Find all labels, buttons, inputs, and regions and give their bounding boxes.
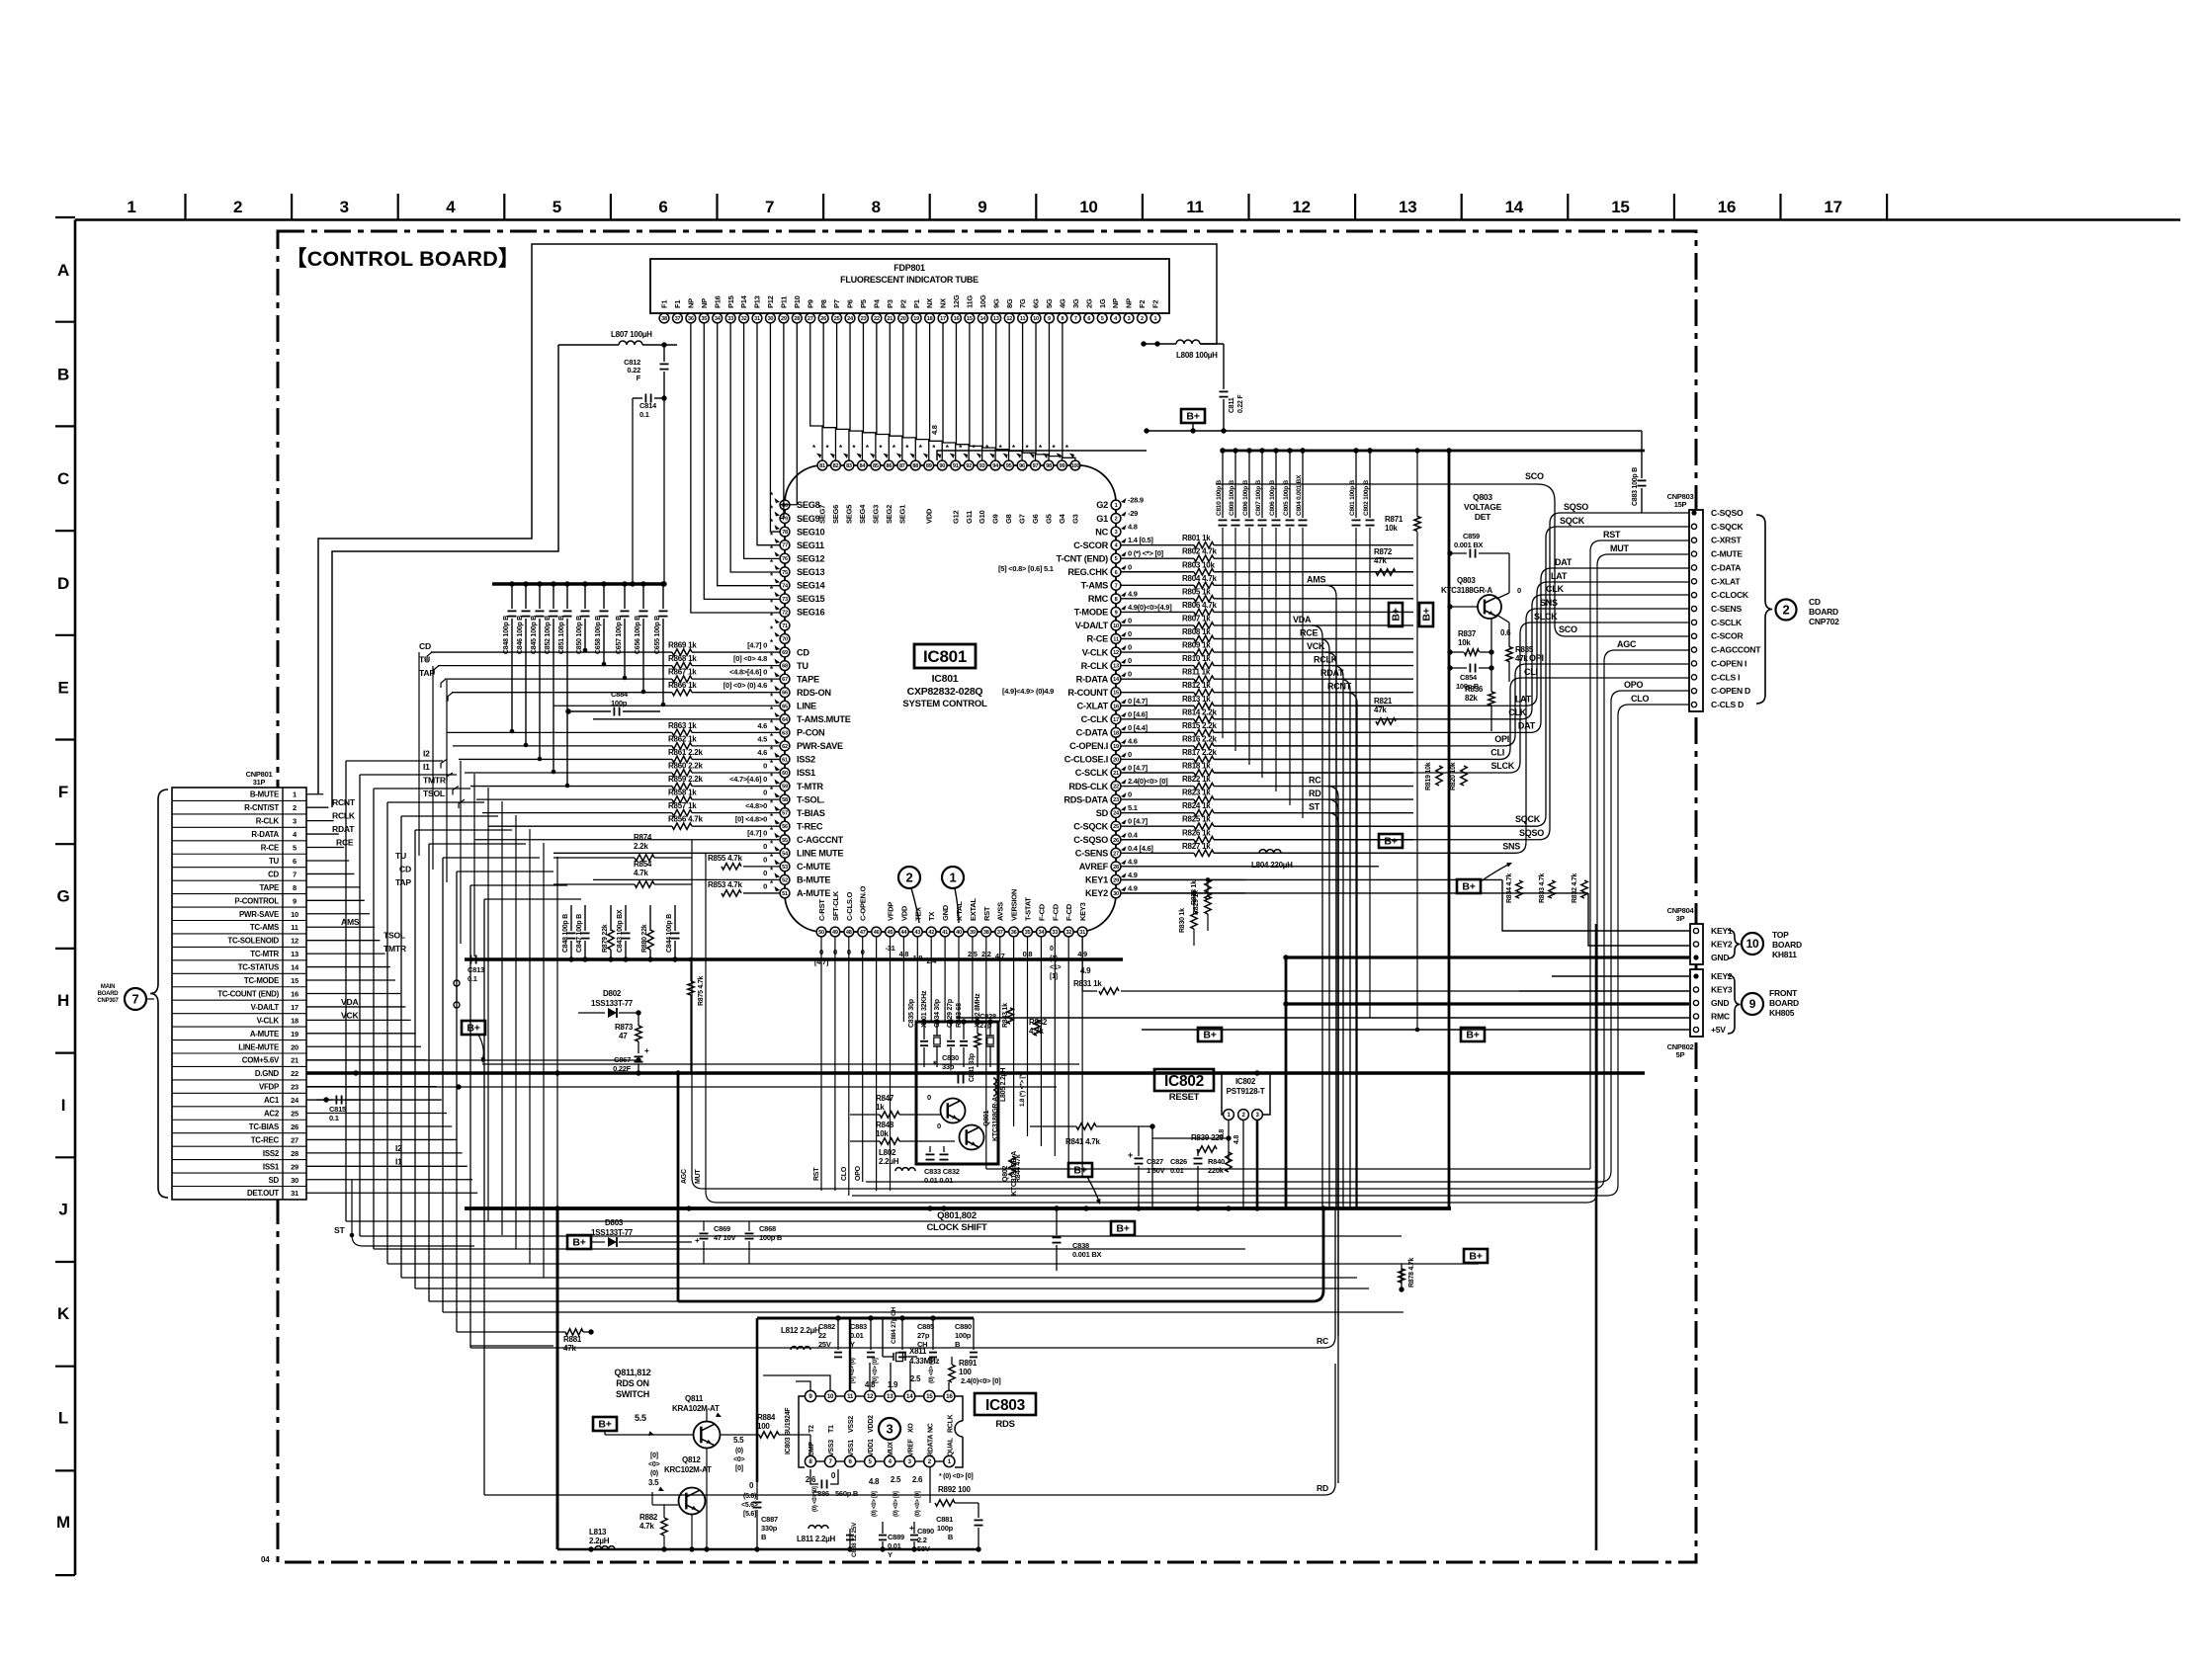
pin value 55 bbox=[747, 828, 780, 838]
svg-text:C883: C883 bbox=[850, 1322, 867, 1331]
svg-text:Q803: Q803 bbox=[1457, 576, 1476, 585]
resistor R821 bbox=[1374, 697, 1396, 724]
svg-text:6: 6 bbox=[658, 198, 667, 216]
svg-text:15P: 15P bbox=[1674, 500, 1687, 509]
resistor R828 bbox=[1191, 879, 1211, 905]
svg-text:G8: G8 bbox=[1004, 514, 1013, 524]
svg-text:C-DATA: C-DATA bbox=[1076, 728, 1109, 738]
svg-text:R841 4.7k: R841 4.7k bbox=[1065, 1137, 1100, 1146]
power B+ rds bbox=[593, 1413, 693, 1436]
svg-text:82: 82 bbox=[833, 463, 839, 469]
svg-text:8: 8 bbox=[1115, 597, 1118, 603]
wire thick bottom bus bbox=[465, 1205, 1451, 1210]
svg-text:48: 48 bbox=[846, 930, 852, 936]
capacitor C869 bbox=[695, 1221, 736, 1264]
svg-text:2: 2 bbox=[1783, 603, 1790, 618]
resistor R884 bbox=[757, 1413, 779, 1438]
svg-text:6: 6 bbox=[1115, 570, 1118, 576]
svg-text:RESET: RESET bbox=[1169, 1092, 1200, 1103]
IC801 designation box bbox=[914, 644, 976, 668]
resistor R843 bbox=[1002, 1003, 1013, 1028]
wire cap row drops bbox=[630, 398, 666, 587]
svg-text:KEY2: KEY2 bbox=[1711, 971, 1733, 981]
svg-text:R892 100: R892 100 bbox=[938, 1485, 971, 1494]
svg-text:C-SQCK: C-SQCK bbox=[1711, 522, 1744, 532]
svg-text:C859: C859 bbox=[1463, 532, 1480, 540]
svg-text:CLO: CLO bbox=[1631, 694, 1649, 704]
svg-text:R860 2.2k: R860 2.2k bbox=[668, 762, 703, 771]
svg-text:C: C bbox=[57, 469, 69, 488]
resistor R841 bbox=[1065, 1123, 1100, 1146]
capacitor C828 bbox=[979, 1012, 996, 1030]
svg-text:14: 14 bbox=[291, 963, 299, 972]
capacitor C881 bbox=[936, 1503, 982, 1549]
svg-text:31: 31 bbox=[291, 1189, 298, 1198]
svg-text:C880: C880 bbox=[955, 1322, 972, 1331]
svg-text:0: 0 bbox=[1128, 750, 1132, 759]
resistor R804 bbox=[1182, 574, 1217, 589]
svg-text:OPI: OPI bbox=[1529, 653, 1544, 663]
svg-text:AC1: AC1 bbox=[264, 1096, 280, 1105]
capacitor C847 bbox=[576, 905, 590, 962]
svg-text:K: K bbox=[57, 1304, 70, 1323]
svg-text:C845 100p B: C845 100p B bbox=[531, 616, 538, 654]
svg-text:C808 100p B: C808 100p B bbox=[1229, 480, 1235, 516]
svg-text:R820 10k: R820 10k bbox=[1450, 762, 1457, 790]
svg-text:1: 1 bbox=[1153, 316, 1156, 322]
svg-text:R801 1k: R801 1k bbox=[1182, 534, 1211, 542]
svg-text:TX: TX bbox=[927, 912, 936, 921]
crystal group labels bbox=[908, 990, 981, 1028]
svg-text:9: 9 bbox=[293, 896, 297, 905]
svg-text:SEG2: SEG2 bbox=[885, 505, 893, 524]
svg-text:B: B bbox=[57, 366, 69, 384]
svg-text:83: 83 bbox=[846, 463, 852, 469]
svg-text:SFT-CLK: SFT-CLK bbox=[831, 890, 840, 921]
svg-text:85: 85 bbox=[873, 463, 879, 469]
svg-text:C-XLAT: C-XLAT bbox=[1711, 576, 1741, 586]
svg-text:3: 3 bbox=[1115, 530, 1118, 536]
svg-text:6: 6 bbox=[1087, 316, 1090, 322]
svg-text:ISS2: ISS2 bbox=[263, 1149, 280, 1158]
svg-text:80: 80 bbox=[782, 503, 788, 509]
svg-text:82k: 82k bbox=[1465, 694, 1478, 703]
svg-text:2.5: 2.5 bbox=[891, 1475, 901, 1484]
svg-text:C-OPEN I: C-OPEN I bbox=[1711, 658, 1746, 668]
svg-text:FRONT: FRONT bbox=[1769, 988, 1798, 998]
svg-text:10: 10 bbox=[1746, 937, 1759, 951]
svg-text:TC-MTR: TC-MTR bbox=[250, 950, 279, 958]
svg-text:CD: CD bbox=[268, 870, 279, 878]
svg-text:28: 28 bbox=[794, 316, 800, 322]
svg-text:C656 100p B: C656 100p B bbox=[635, 616, 641, 654]
resistor R857 bbox=[668, 801, 780, 816]
svg-text:4.9: 4.9 bbox=[1128, 857, 1138, 866]
svg-text:R871: R871 bbox=[1385, 515, 1404, 524]
svg-text:KEY2: KEY2 bbox=[1711, 940, 1733, 950]
svg-text:0 [4.7]: 0 [4.7] bbox=[1128, 764, 1149, 773]
svg-text:MUX: MUX bbox=[888, 1442, 894, 1456]
svg-text:B+: B+ bbox=[1469, 1251, 1482, 1263]
svg-text:PST9128-T: PST9128-T bbox=[1227, 1087, 1265, 1096]
svg-text:I1: I1 bbox=[423, 762, 430, 772]
svg-text:22: 22 bbox=[874, 316, 880, 322]
resistor R892 bbox=[930, 1467, 978, 1506]
power B+ reset2 bbox=[1461, 1028, 1485, 1041]
svg-text:C869: C869 bbox=[714, 1224, 730, 1233]
wire F1 filament loop bbox=[318, 244, 1217, 807]
svg-text:RDAT: RDAT bbox=[332, 824, 355, 834]
svg-text:R872: R872 bbox=[1374, 547, 1393, 556]
svg-text:SEG15: SEG15 bbox=[797, 594, 825, 604]
svg-text:F2: F2 bbox=[1151, 300, 1160, 308]
svg-text:26: 26 bbox=[1113, 838, 1119, 844]
svg-text:VSS3: VSS3 bbox=[828, 1440, 835, 1456]
svg-text:LINE: LINE bbox=[797, 701, 816, 710]
svg-text:C835 30p: C835 30p bbox=[908, 999, 915, 1028]
resistor R825 bbox=[1182, 815, 1214, 830]
svg-text:P4: P4 bbox=[872, 298, 881, 308]
svg-text:5: 5 bbox=[553, 198, 561, 216]
svg-text:CLOCK SHIFT: CLOCK SHIFT bbox=[926, 1222, 987, 1233]
svg-text:1.4 [0.5]: 1.4 [0.5] bbox=[1128, 536, 1153, 544]
svg-text:10k: 10k bbox=[1458, 638, 1471, 647]
svg-text:L804 220µH: L804 220µH bbox=[1251, 861, 1293, 870]
svg-text:21: 21 bbox=[887, 316, 893, 322]
capacitor C886 bbox=[810, 1469, 859, 1498]
svg-text:4G: 4G bbox=[1059, 298, 1067, 308]
svg-text:R807 1k: R807 1k bbox=[1182, 614, 1211, 623]
svg-text:XO: XO bbox=[907, 1423, 914, 1433]
svg-text:2: 2 bbox=[1115, 517, 1118, 523]
svg-text:1: 1 bbox=[293, 790, 297, 799]
svg-text:FDP801: FDP801 bbox=[893, 263, 925, 273]
svg-text:220k: 220k bbox=[1208, 1166, 1225, 1175]
resistor R830 bbox=[1179, 891, 1197, 946]
CD board callout bbox=[1756, 515, 1839, 704]
svg-text:RMC: RMC bbox=[1088, 594, 1109, 604]
svg-text:0 [4.7]: 0 [4.7] bbox=[1128, 817, 1149, 826]
svg-text:1k: 1k bbox=[876, 1103, 885, 1112]
inductor L812 bbox=[781, 1326, 820, 1350]
capacitor C887 bbox=[753, 1482, 779, 1549]
svg-text:16: 16 bbox=[1113, 704, 1119, 709]
svg-text:GND: GND bbox=[1711, 953, 1729, 962]
connector CNP801 31P bbox=[172, 770, 306, 1200]
svg-text:G10: G10 bbox=[978, 510, 986, 524]
svg-text:G5: G5 bbox=[1045, 514, 1054, 524]
svg-text:P2: P2 bbox=[898, 299, 907, 308]
svg-text:R819 10k: R819 10k bbox=[1425, 762, 1432, 790]
svg-text:TC-REC: TC-REC bbox=[251, 1135, 280, 1144]
svg-text:7: 7 bbox=[293, 870, 297, 878]
svg-text:R810 1k: R810 1k bbox=[1182, 654, 1211, 663]
svg-text:6G: 6G bbox=[1032, 298, 1041, 308]
svg-text:VREF: VREF bbox=[907, 1438, 914, 1456]
svg-text:B+: B+ bbox=[467, 1023, 479, 1035]
svg-text:[4.9]<4.9> (0)4.9: [4.9]<4.9> (0)4.9 bbox=[1002, 687, 1054, 696]
resistor R837 bbox=[1447, 619, 1493, 692]
control board dashed outline bbox=[278, 231, 1696, 1562]
svg-text:A-MUTE: A-MUTE bbox=[797, 888, 830, 898]
resistor R815 bbox=[1182, 721, 1217, 736]
svg-text:D803: D803 bbox=[605, 1218, 624, 1227]
svg-text:KTC3188GR-A: KTC3188GR-A bbox=[992, 1097, 999, 1141]
svg-text:C847 100p B: C847 100p B bbox=[576, 914, 583, 953]
svg-text:0.001 BX: 0.001 BX bbox=[1454, 540, 1484, 549]
svg-text:LAT: LAT bbox=[1515, 694, 1532, 704]
svg-text:59: 59 bbox=[782, 785, 788, 790]
svg-text:TAP: TAP bbox=[395, 877, 411, 887]
svg-text:R-DATA: R-DATA bbox=[1076, 674, 1109, 684]
capacitor C806 bbox=[1269, 448, 1281, 525]
svg-text:C-AGCCNT: C-AGCCNT bbox=[797, 835, 844, 845]
svg-text:35: 35 bbox=[1025, 930, 1031, 936]
wire reset net bbox=[1030, 1121, 1260, 1211]
svg-text:ISS1: ISS1 bbox=[263, 1162, 280, 1171]
svg-text:T1: T1 bbox=[828, 1425, 835, 1433]
svg-text:C890: C890 bbox=[917, 1527, 934, 1536]
svg-text:75: 75 bbox=[782, 570, 788, 576]
resistor R861 bbox=[668, 748, 780, 763]
svg-text:R848: R848 bbox=[876, 1121, 894, 1129]
svg-text:33: 33 bbox=[1052, 930, 1058, 936]
svg-text:9: 9 bbox=[1749, 997, 1756, 1011]
svg-text:0: 0 bbox=[1517, 586, 1521, 595]
svg-text:C657 100p B: C657 100p B bbox=[616, 616, 623, 654]
svg-text:OPO: OPO bbox=[1624, 680, 1644, 690]
svg-text:VFDP: VFDP bbox=[887, 902, 895, 921]
wire mid horizontal rails bbox=[306, 1064, 1079, 1246]
svg-text:15: 15 bbox=[926, 1393, 933, 1400]
svg-text:+: + bbox=[644, 1046, 649, 1055]
resistor R802 bbox=[1182, 547, 1217, 562]
svg-text:KEY3: KEY3 bbox=[1711, 985, 1733, 995]
svg-text:47: 47 bbox=[619, 1032, 628, 1040]
svg-text:29: 29 bbox=[781, 316, 787, 322]
svg-text:B+: B+ bbox=[1116, 1223, 1129, 1235]
svg-text:0.01: 0.01 bbox=[1170, 1166, 1184, 1175]
svg-text:7: 7 bbox=[132, 992, 139, 1007]
svg-text:B+: B+ bbox=[1203, 1030, 1216, 1041]
svg-text:SEG12: SEG12 bbox=[797, 553, 825, 563]
svg-text:37: 37 bbox=[675, 316, 681, 322]
svg-text:0 [4.4]: 0 [4.4] bbox=[1128, 723, 1149, 732]
svg-text:VDD2: VDD2 bbox=[868, 1415, 875, 1433]
svg-text:C831 33p: C831 33p bbox=[969, 1053, 976, 1082]
svg-text:P11: P11 bbox=[779, 296, 788, 308]
svg-text:C-SCLK: C-SCLK bbox=[1075, 768, 1109, 778]
svg-text:71: 71 bbox=[782, 623, 788, 629]
svg-text:C-CLK: C-CLK bbox=[1081, 714, 1109, 724]
svg-text:VFDP: VFDP bbox=[259, 1083, 279, 1092]
svg-text:3.5: 3.5 bbox=[648, 1478, 659, 1487]
wire capacitor bus upper bbox=[492, 582, 664, 585]
svg-text:1: 1 bbox=[127, 198, 135, 216]
svg-text:T-AMS: T-AMS bbox=[1081, 581, 1108, 591]
svg-text:R861 2.2k: R861 2.2k bbox=[668, 748, 703, 757]
svg-text:LINE-MUTE: LINE-MUTE bbox=[238, 1042, 279, 1051]
svg-text:NP: NP bbox=[700, 298, 709, 308]
svg-text:GND: GND bbox=[941, 904, 950, 921]
svg-text:R812 1k: R812 1k bbox=[1182, 681, 1211, 690]
svg-text:67: 67 bbox=[782, 677, 788, 683]
resistor R879 bbox=[602, 905, 614, 962]
svg-text:3: 3 bbox=[340, 198, 349, 216]
resistor R866 bbox=[668, 681, 780, 696]
svg-text:T-STAT: T-STAT bbox=[1024, 897, 1033, 921]
svg-text:NP: NP bbox=[686, 298, 695, 308]
resistor R860 bbox=[668, 762, 780, 777]
svg-text:R-CNT/ST: R-CNT/ST bbox=[244, 803, 279, 812]
svg-text:TAPE: TAPE bbox=[260, 883, 279, 892]
pin value 54 bbox=[763, 842, 780, 852]
svg-text:F: F bbox=[637, 374, 641, 382]
capacitor C845 bbox=[531, 581, 545, 761]
svg-text:23: 23 bbox=[1113, 797, 1119, 803]
svg-text:C-OPEN.O: C-OPEN.O bbox=[859, 885, 868, 921]
wire misc junction dots bbox=[565, 448, 1451, 1551]
svg-text:SD: SD bbox=[1096, 808, 1109, 818]
svg-text:SNS: SNS bbox=[1502, 841, 1520, 851]
svg-text:SD: SD bbox=[269, 1176, 280, 1185]
svg-text:R882: R882 bbox=[639, 1513, 658, 1522]
svg-text:8G: 8G bbox=[1005, 298, 1014, 308]
svg-text:R873: R873 bbox=[615, 1023, 634, 1032]
svg-text:VOLTAGE: VOLTAGE bbox=[1464, 502, 1502, 512]
svg-text:MUT: MUT bbox=[695, 1169, 702, 1184]
transistor Q802 bbox=[937, 1122, 1018, 1196]
svg-text:53: 53 bbox=[782, 865, 788, 871]
callout circle 1 bbox=[942, 867, 964, 923]
svg-text:IC802: IC802 bbox=[1235, 1077, 1256, 1086]
svg-text:I: I bbox=[61, 1096, 65, 1115]
capacitor C813 bbox=[454, 956, 484, 1009]
svg-text:C806 100p B: C806 100p B bbox=[1242, 480, 1249, 516]
crystal X811 bbox=[883, 1347, 940, 1366]
resistor R881 bbox=[563, 1329, 594, 1353]
svg-text:C-MUTE: C-MUTE bbox=[797, 862, 830, 872]
svg-text:1G: 1G bbox=[1098, 298, 1107, 308]
svg-text:R862 1k: R862 1k bbox=[668, 734, 697, 743]
svg-text:R857 1k: R857 1k bbox=[668, 801, 697, 810]
svg-text:Q801: Q801 bbox=[983, 1111, 990, 1126]
svg-text:<5.6>: <5.6> bbox=[741, 1502, 758, 1509]
svg-text:R826 1k: R826 1k bbox=[1182, 828, 1211, 837]
wire CNP801 stub labels bbox=[332, 797, 411, 1235]
svg-text:BOARD: BOARD bbox=[1809, 607, 1838, 617]
capacitor C814 bbox=[633, 394, 667, 420]
svg-text:R-CLK: R-CLK bbox=[256, 817, 280, 826]
svg-text:11: 11 bbox=[1113, 637, 1119, 643]
svg-text:26: 26 bbox=[820, 316, 826, 322]
svg-text:Q811: Q811 bbox=[685, 1394, 704, 1403]
svg-text:R891: R891 bbox=[959, 1359, 978, 1368]
capacitor C851 bbox=[558, 581, 572, 788]
resistor R872 bbox=[1374, 547, 1396, 575]
svg-text:C804 0.001 BX: C804 0.001 BX bbox=[1296, 474, 1303, 516]
svg-text:+: + bbox=[909, 1524, 914, 1533]
svg-text:<4.7>[4.6] 0: <4.7>[4.6] 0 bbox=[729, 775, 767, 784]
svg-text:(0): (0) bbox=[650, 1470, 658, 1477]
svg-text:25: 25 bbox=[834, 316, 840, 322]
svg-text:B+: B+ bbox=[1186, 411, 1199, 423]
svg-text:[1]: [1] bbox=[1050, 973, 1058, 980]
svg-text:0: 0 bbox=[1128, 629, 1132, 638]
svg-text:C814: C814 bbox=[639, 401, 657, 410]
svg-text:4.9: 4.9 bbox=[1128, 871, 1138, 879]
svg-text:100p: 100p bbox=[955, 1331, 972, 1340]
wire cap bank bus bbox=[1223, 450, 1645, 453]
svg-text:VCK: VCK bbox=[341, 1010, 359, 1020]
svg-text:C850 100p B: C850 100p B bbox=[576, 616, 583, 654]
svg-text:ST: ST bbox=[1309, 802, 1320, 812]
svg-text:R840: R840 bbox=[1208, 1157, 1225, 1166]
IC803 pin values bottom bbox=[806, 1471, 974, 1517]
svg-text:R805 1k: R805 1k bbox=[1182, 587, 1211, 596]
svg-text:5.5: 5.5 bbox=[635, 1413, 646, 1423]
resistor R875 bbox=[688, 957, 705, 1073]
svg-text:[4.7] 0: [4.7] 0 bbox=[747, 641, 767, 650]
svg-text:1: 1 bbox=[950, 871, 957, 885]
svg-text:V-DA/LT: V-DA/LT bbox=[251, 1003, 280, 1012]
svg-text:20: 20 bbox=[900, 316, 906, 322]
svg-text:3P: 3P bbox=[1676, 914, 1685, 923]
svg-text:(0): (0) bbox=[735, 1448, 743, 1454]
transistor Q801 bbox=[927, 1059, 999, 1141]
svg-text:B: B bbox=[761, 1533, 767, 1541]
svg-text:<0>: <0> bbox=[648, 1461, 659, 1468]
svg-text:TC-BIAS: TC-BIAS bbox=[249, 1122, 279, 1131]
resistor R874 bbox=[553, 833, 692, 861]
resistor R826 bbox=[1182, 828, 1214, 843]
svg-text:EXTAL: EXTAL bbox=[969, 898, 978, 921]
svg-text:L807 100µH: L807 100µH bbox=[611, 330, 652, 339]
svg-text:R-CLK: R-CLK bbox=[1081, 661, 1109, 671]
resistor R833 bbox=[1539, 873, 1555, 903]
svg-text:47: 47 bbox=[860, 930, 866, 936]
resistor R859 bbox=[668, 775, 780, 789]
wire mid rows to IC bbox=[423, 706, 780, 893]
svg-text:<4.8>[4.6] 0: <4.8>[4.6] 0 bbox=[729, 668, 767, 677]
svg-text:P15: P15 bbox=[726, 295, 735, 308]
svg-text:G7: G7 bbox=[1018, 514, 1027, 524]
capacitor C827 bbox=[1128, 1126, 1165, 1208]
IC803 pin values top bbox=[850, 1358, 1001, 1389]
power B+ lower right bbox=[1464, 1249, 1488, 1263]
svg-text:3G: 3G bbox=[1071, 298, 1080, 308]
svg-text:SQCK: SQCK bbox=[1560, 516, 1585, 526]
svg-text:R868 1k: R868 1k bbox=[668, 654, 697, 663]
svg-text:4.5: 4.5 bbox=[757, 734, 767, 743]
svg-text:I2: I2 bbox=[423, 748, 430, 758]
diode D802 bbox=[578, 989, 641, 1018]
svg-text:19: 19 bbox=[1113, 744, 1119, 750]
svg-text:SYSTEM CONTROL: SYSTEM CONTROL bbox=[902, 699, 987, 709]
svg-text:G11: G11 bbox=[965, 511, 974, 524]
svg-text:L: L bbox=[58, 1409, 68, 1428]
capacitor C844 bbox=[666, 905, 680, 962]
svg-text:M: M bbox=[56, 1513, 70, 1532]
svg-text:R833 4.7k: R833 4.7k bbox=[1539, 873, 1546, 903]
wire left bundle verticals bbox=[346, 761, 484, 1495]
svg-text:3: 3 bbox=[293, 817, 297, 826]
svg-text:25: 25 bbox=[1113, 824, 1119, 830]
svg-text:VERSION: VERSION bbox=[1010, 889, 1019, 921]
capacitor C811 bbox=[1220, 344, 1245, 431]
svg-text:10: 10 bbox=[1079, 198, 1097, 216]
inductor L802 bbox=[879, 1148, 915, 1171]
